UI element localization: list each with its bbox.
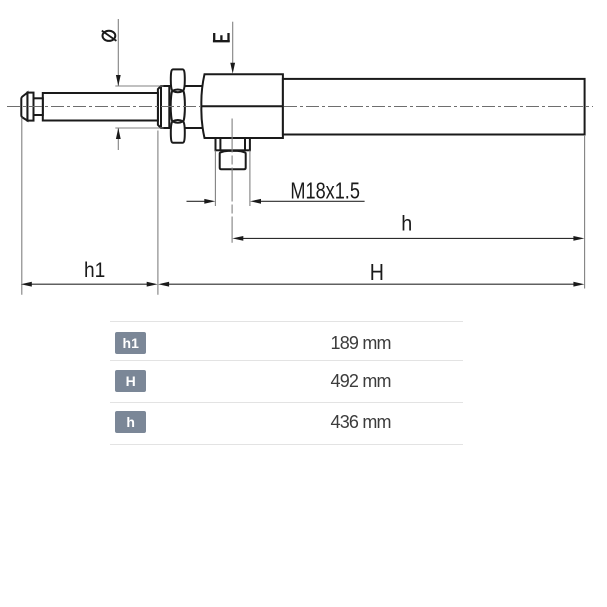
svg-text:h: h bbox=[401, 213, 412, 236]
svg-text:h1: h1 bbox=[84, 259, 105, 282]
svg-text:H: H bbox=[370, 259, 384, 285]
svg-text:M18x1.5: M18x1.5 bbox=[290, 177, 360, 203]
